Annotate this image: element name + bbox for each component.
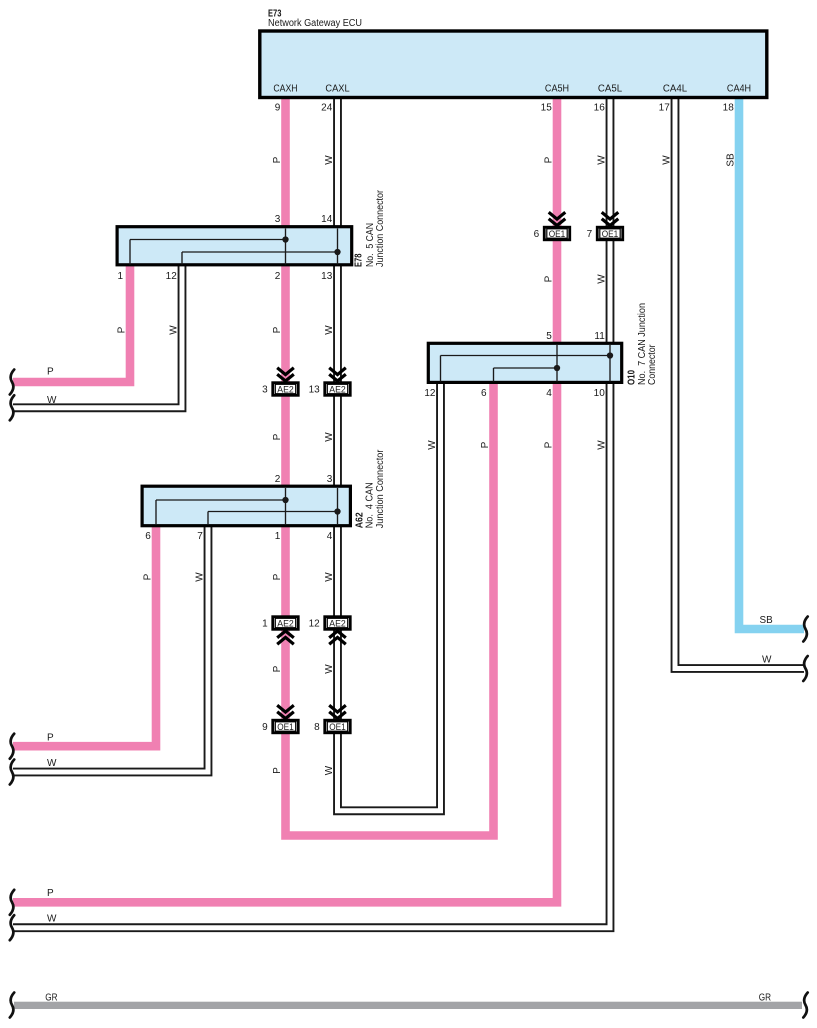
svg-text:W: W — [47, 758, 57, 769]
svg-text:W: W — [324, 572, 335, 582]
svg-text:P: P — [47, 367, 54, 378]
svg-text:AE2: AE2 — [329, 617, 346, 628]
svg-text:CA4L: CA4L — [663, 84, 688, 95]
svg-text:9: 9 — [262, 722, 268, 733]
svg-text:W: W — [597, 440, 608, 450]
svg-text:O10: O10 — [626, 370, 637, 385]
svg-text:P: P — [272, 767, 283, 774]
svg-text:AE2: AE2 — [277, 383, 294, 394]
svg-text:W: W — [427, 440, 438, 450]
svg-text:W: W — [597, 274, 608, 284]
svg-text:6: 6 — [534, 229, 540, 240]
svg-text:E78: E78 — [354, 253, 365, 267]
svg-text:17: 17 — [659, 103, 671, 114]
svg-text:3: 3 — [262, 385, 268, 396]
svg-text:6: 6 — [481, 388, 487, 399]
svg-text:12: 12 — [166, 271, 178, 282]
svg-text:7: 7 — [587, 229, 593, 240]
svg-text:11: 11 — [594, 331, 605, 342]
svg-text:W: W — [195, 572, 206, 582]
svg-text:W: W — [324, 664, 335, 674]
svg-text:P: P — [47, 733, 54, 744]
svg-text:P: P — [272, 665, 283, 672]
svg-text:2: 2 — [275, 474, 281, 485]
svg-text:W: W — [324, 765, 335, 775]
svg-text:P: P — [272, 573, 283, 580]
svg-text:12: 12 — [424, 388, 436, 399]
svg-text:W: W — [324, 155, 335, 165]
svg-text:P: P — [272, 326, 283, 333]
svg-text:W: W — [324, 325, 335, 335]
svg-text:8: 8 — [314, 722, 320, 733]
svg-text:CAXL: CAXL — [325, 84, 350, 95]
svg-text:OE1: OE1 — [329, 721, 346, 732]
svg-text:15: 15 — [541, 103, 553, 114]
svg-text:P: P — [544, 156, 555, 163]
svg-text:1: 1 — [275, 531, 281, 542]
svg-text:P: P — [47, 888, 54, 899]
svg-text:OE1: OE1 — [277, 721, 294, 732]
svg-text:7: 7 — [197, 531, 203, 542]
svg-text:AE2: AE2 — [277, 617, 294, 628]
svg-text:2: 2 — [275, 271, 281, 282]
svg-text:3: 3 — [275, 214, 281, 225]
svg-text:W: W — [762, 654, 772, 665]
svg-text:12: 12 — [309, 619, 321, 630]
svg-text:4: 4 — [327, 531, 333, 542]
svg-text:W: W — [47, 395, 57, 406]
svg-text:24: 24 — [321, 103, 333, 114]
svg-text:18: 18 — [723, 103, 735, 114]
svg-text:W: W — [47, 914, 57, 925]
svg-text:14: 14 — [321, 214, 333, 225]
svg-text:OE1: OE1 — [602, 228, 619, 239]
svg-text:4: 4 — [546, 388, 552, 399]
svg-text:W: W — [169, 325, 180, 335]
svg-text:Network Gateway ECU: Network Gateway ECU — [268, 18, 362, 29]
svg-text:AE2: AE2 — [329, 383, 346, 394]
svg-text:1: 1 — [117, 271, 123, 282]
svg-text:P: P — [117, 326, 128, 333]
svg-text:P: P — [544, 441, 555, 448]
svg-text:CAXH: CAXH — [273, 84, 297, 95]
svg-text:P: P — [143, 573, 154, 580]
svg-text:P: P — [480, 441, 491, 448]
svg-text:1: 1 — [262, 619, 268, 630]
svg-text:P: P — [272, 156, 283, 163]
svg-text:13: 13 — [309, 385, 321, 396]
svg-text:13: 13 — [321, 271, 333, 282]
svg-text:W: W — [662, 155, 673, 165]
svg-text:Junction Connector: Junction Connector — [375, 189, 386, 267]
svg-text:3: 3 — [327, 474, 333, 485]
svg-text:CA4H: CA4H — [727, 84, 751, 95]
svg-text:9: 9 — [275, 103, 281, 114]
svg-text:16: 16 — [594, 103, 606, 114]
svg-text:5: 5 — [546, 331, 552, 342]
svg-text:CA5L: CA5L — [598, 84, 623, 95]
svg-text:P: P — [272, 433, 283, 440]
svg-text:W: W — [324, 432, 335, 442]
svg-text:Junction Connector: Junction Connector — [375, 449, 386, 528]
svg-text:10: 10 — [594, 388, 606, 399]
svg-text:SB: SB — [760, 615, 774, 626]
svg-text:W: W — [597, 155, 608, 165]
svg-text:6: 6 — [145, 531, 151, 542]
svg-text:Connector: Connector — [647, 344, 658, 385]
svg-text:OE1: OE1 — [549, 228, 566, 239]
svg-text:P: P — [544, 275, 555, 282]
svg-text:CA5H: CA5H — [545, 84, 569, 95]
svg-text:SB: SB — [726, 153, 737, 167]
